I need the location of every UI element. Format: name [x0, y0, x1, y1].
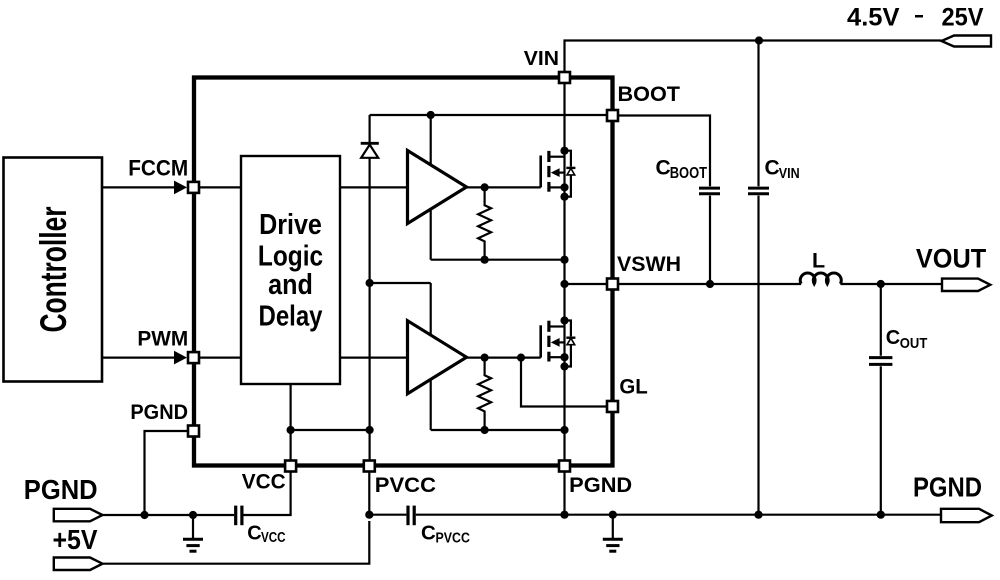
- pin VSWH: [607, 279, 618, 290]
- wire CVIN to ground rail: [757, 196, 759, 515]
- capacitor CPVCC left plate: [406, 506, 409, 526]
- svg-text:VIN: VIN: [524, 47, 559, 70]
- svg-text:C: C: [421, 522, 436, 545]
- svg-text:C: C: [765, 156, 780, 179]
- terminal PGND left connector: [54, 509, 103, 522]
- wire PGND bottom pin riser: [563, 472, 565, 515]
- op-amp upper gate driver buffer: [408, 151, 467, 224]
- svg-text:C: C: [656, 157, 671, 180]
- pin PGND bottom: [559, 461, 570, 472]
- pin FCCM: [188, 182, 199, 193]
- wire CVCC to VCC pin: [244, 472, 291, 515]
- diode Q2 body diode triangle: [567, 338, 575, 345]
- wire PVCC pin riser: [368, 472, 370, 515]
- wire Q2 body lead: [558, 341, 565, 343]
- node PGND rail COUT: [877, 511, 885, 519]
- svg-text:FCCM: FCCM: [128, 155, 188, 180]
- wire PWM input from controller: [102, 357, 175, 359]
- diode Q1 body diode cathode bar: [566, 167, 575, 169]
- resistor lower gate pulldown: [478, 358, 491, 430]
- wire PVCC node to CPVCC: [369, 514, 406, 516]
- svg-text:Logic: Logic: [258, 240, 323, 272]
- arrowhead Q1 body: [551, 168, 560, 177]
- pin GL: [607, 401, 618, 412]
- pin BOOT: [607, 110, 618, 121]
- wire left PGND rail: [103, 514, 235, 516]
- svg-text:L: L: [812, 249, 825, 273]
- transistor Q2 channel dash 1: [547, 321, 550, 332]
- wire upper cell supply vertical: [430, 115, 432, 260]
- wire BOOT rail inside device: [370, 114, 606, 116]
- svg-text:VOUT: VOUT: [916, 244, 987, 274]
- wire BOOT pin to CBOOT: [619, 116, 710, 187]
- svg-text:VCC: VCC: [242, 470, 286, 494]
- arrowhead Q2 body: [551, 338, 560, 347]
- node VCC link left: [287, 426, 295, 434]
- svg-text:VCC: VCC: [261, 530, 286, 546]
- diode Q1 body diode triangle: [567, 168, 575, 175]
- svg-text:PGND: PGND: [569, 473, 632, 497]
- capacitor CVIN top plate: [748, 187, 769, 190]
- node Q1 source: [560, 183, 568, 191]
- node GL gate tap: [517, 354, 525, 362]
- wire PGND pin branch to left ground rail: [145, 431, 189, 515]
- wire Q2 drain lead: [550, 325, 565, 327]
- capacitor CVIN bottom plate: [748, 192, 769, 195]
- wire Q1 body diode to source jog: [565, 175, 571, 197]
- node Q2 drain: [560, 316, 568, 324]
- wire Q1 body lead: [558, 172, 565, 174]
- node CBOOT switch junction: [706, 280, 714, 288]
- transistor Q1 high-side gate bar: [539, 156, 542, 188]
- wire VIN internal drop to high-side drain: [563, 84, 565, 151]
- wire VCC riser from drive logic: [290, 384, 292, 460]
- node lower driver output: [481, 354, 489, 362]
- ground symbol right: [612, 515, 614, 538]
- transistor Q1 channel dash 2: [547, 166, 550, 177]
- wire Q2 body diode to source jog: [565, 345, 571, 367]
- node upper driver output: [481, 183, 489, 191]
- pin VCC: [285, 461, 296, 472]
- wire Q2 body diode jog: [565, 321, 571, 337]
- wire COUT to ground rail: [880, 366, 882, 515]
- node PGND rail CVIN: [754, 511, 762, 519]
- device U1 outline: [194, 78, 613, 466]
- svg-text:Delay: Delay: [259, 301, 323, 333]
- transistor Q2 channel dash 2: [547, 336, 550, 347]
- svg-text:Controller: Controller: [33, 207, 74, 333]
- node upper resistor bottom: [481, 256, 489, 264]
- wire switch node vertical: [563, 151, 565, 321]
- wire Q2 source to PGND pin: [563, 321, 565, 461]
- arrowhead FCCM: [174, 181, 187, 195]
- wire Q1 drain lead: [550, 156, 565, 158]
- wire Q1 body diode jog: [565, 151, 571, 167]
- pin PVCC: [364, 461, 375, 472]
- node top rail CVIN junction: [755, 36, 763, 44]
- node Q1 drain: [560, 147, 568, 155]
- transistor Q1 channel dash 3: [547, 182, 550, 192]
- svg-text:25V: 25V: [942, 4, 984, 32]
- pin PWM: [188, 352, 199, 363]
- resistor upper gate pulldown: [478, 187, 491, 259]
- node lower resistor bottom: [481, 426, 489, 434]
- capacitor CVCC left plate: [234, 506, 237, 526]
- wire drive logic to upper driver input: [340, 186, 408, 188]
- wire upper cell bottom rail: [431, 259, 565, 261]
- wire lower cell bottom rail: [431, 429, 565, 431]
- terminal VOUT connector: [942, 279, 990, 291]
- wire VCC to PVCC link: [291, 429, 370, 431]
- terminal 4.5V-25V input connector: [942, 36, 992, 47]
- wire VSWH pin to inductor: [619, 283, 801, 285]
- block Drive Logic and Delay: [241, 156, 340, 384]
- wire VIN riser and top input rail: [565, 41, 942, 85]
- capacitor CPVCC right plate: [413, 506, 416, 526]
- wire Q1 source lead: [550, 186, 565, 188]
- svg-text:4.5V: 4.5V: [847, 4, 900, 32]
- node Q2 body diode return: [560, 362, 568, 370]
- svg-text:BOOT: BOOT: [670, 165, 708, 182]
- svg-text:BOOT: BOOT: [618, 82, 681, 106]
- svg-text:VSWH: VSWH: [617, 252, 681, 276]
- wire FCCM input from controller: [102, 186, 175, 188]
- svg-text:+5V: +5V: [53, 524, 98, 555]
- svg-text:PGND: PGND: [913, 472, 982, 503]
- block Controller: [4, 158, 103, 382]
- inductor L: [800, 273, 841, 284]
- node PGND rail pin riser: [560, 511, 568, 519]
- wire bottom PGND rail: [416, 514, 941, 516]
- wire CBOOT to switch node wire: [709, 196, 711, 284]
- wire inductor to VOUT terminal: [840, 283, 942, 285]
- svg-text:C: C: [247, 523, 261, 545]
- capacitor COUT bottom plate: [869, 363, 892, 366]
- transistor Q1 channel dash 1: [547, 151, 550, 162]
- diode D1 bootstrap cathode bar: [361, 142, 379, 145]
- capacitor CVCC right plate: [240, 506, 243, 526]
- svg-text:PWM: PWM: [137, 327, 188, 351]
- wire drive logic to lower driver input: [340, 357, 408, 359]
- capacitor CBOOT top plate: [699, 187, 720, 190]
- svg-text:–: –: [915, 1, 924, 29]
- arrowhead PWM: [174, 351, 187, 365]
- wire PVCC vertical from diode anode to PVCC pin: [369, 158, 371, 460]
- wire FCCM pin to drive logic: [200, 186, 241, 188]
- node Q1 body diode return: [560, 193, 568, 201]
- pin VIN: [559, 72, 570, 83]
- pin PGND left: [188, 426, 199, 437]
- wire VSWH pin to switch node: [565, 283, 607, 285]
- node switch VSWH junction: [560, 280, 568, 288]
- wire PWM pin to drive logic: [200, 357, 241, 359]
- wire CVIN from top rail: [757, 41, 759, 187]
- node VOUT COUT junction: [877, 280, 885, 288]
- svg-text:and: and: [268, 269, 313, 301]
- diode D1 bootstrap triangle: [361, 145, 378, 158]
- transistor Q2 channel dash 3: [547, 352, 550, 362]
- svg-text:PVCC: PVCC: [375, 473, 436, 497]
- svg-text:PGND: PGND: [24, 474, 98, 505]
- ground symbol left: [192, 515, 194, 538]
- node PVCC lower rail tap: [366, 279, 374, 287]
- svg-text:OUT: OUT: [900, 335, 928, 352]
- svg-text:C: C: [886, 327, 900, 349]
- terminal +5V connector: [54, 558, 103, 571]
- svg-text:PGND: PGND: [130, 400, 188, 424]
- diode Q2 body diode cathode bar: [566, 337, 575, 339]
- wire Q2 source lead: [550, 356, 565, 358]
- svg-text:VIN: VIN: [779, 165, 800, 182]
- node lower rail PGND: [560, 426, 568, 434]
- node Q2 source: [560, 353, 568, 361]
- wire COUT branch: [880, 284, 882, 356]
- wire lower cell supply rail from PVCC line: [370, 282, 431, 284]
- capacitor COUT top plate: [869, 356, 892, 359]
- node upper rail to switch: [560, 256, 568, 264]
- wire lower cell supply vertical: [430, 283, 432, 430]
- wire bootstrap diode branch vertical: [369, 115, 371, 143]
- node left rail ground stem: [189, 511, 197, 519]
- capacitor CBOOT bottom plate: [699, 192, 720, 195]
- node left rail PGND branch: [140, 511, 148, 519]
- svg-text:PVCC: PVCC: [436, 530, 471, 546]
- wire GL pin branch: [521, 358, 606, 407]
- node BOOT rail upper cell junction: [427, 111, 435, 119]
- terminal PGND right connector: [941, 509, 992, 522]
- op-amp lower gate driver buffer: [408, 321, 467, 394]
- transistor Q2 low-side gate bar: [539, 325, 542, 357]
- node PGND rail ground stem: [609, 511, 617, 519]
- wire lower driver output to low-side gate: [467, 357, 541, 359]
- node VCC link right: [366, 426, 374, 434]
- svg-text:GL: GL: [619, 374, 647, 398]
- svg-text:Drive: Drive: [259, 209, 322, 241]
- wire +5V rail to PVCC node: [103, 521, 370, 564]
- node PVCC CPVCC junction: [365, 511, 373, 519]
- wire upper driver output to high-side gate: [467, 186, 541, 188]
